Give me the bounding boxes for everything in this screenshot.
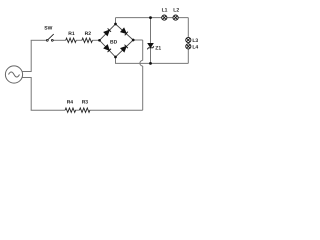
bridge BD edge wires bbox=[100, 24, 134, 57]
lamp L3 bbox=[186, 37, 191, 42]
wire: top branch from corner to switch bbox=[31, 39, 47, 41]
lamp L4 bbox=[186, 44, 191, 49]
wire: R1 to R2 bbox=[76, 39, 82, 41]
wire: right vertical rail with lamps bbox=[187, 18, 189, 64]
junction node: bridge bottom vertex bbox=[114, 56, 117, 59]
diode D2 upper-right (top vertex to right vertex) bbox=[121, 28, 128, 35]
wire: R4 to left corner bbox=[31, 109, 65, 111]
svg-text:R4: R4 bbox=[67, 100, 74, 106]
switch SW bbox=[46, 34, 53, 41]
svg-text:SW: SW bbox=[44, 25, 52, 31]
svg-text:R3: R3 bbox=[82, 100, 89, 106]
wire: R3 to R4 bbox=[75, 109, 79, 111]
diode D3 lower-left (left vertex to bottom vertex) bbox=[104, 45, 111, 52]
junction node: bridge left vertex bbox=[98, 39, 101, 42]
wire: drop vertical lower part bbox=[142, 66, 144, 110]
resistor R2 bbox=[82, 38, 93, 42]
junction node: bridge right vertex bbox=[132, 39, 135, 42]
wire: lower dc rail y62.5 from right corner to bridge bottom stub bbox=[116, 57, 189, 63]
wire: bridge top vertex stub to top rail bbox=[115, 18, 117, 24]
svg-text:Z1: Z1 bbox=[155, 46, 161, 52]
wire: zener branch vertical bbox=[150, 18, 152, 64]
wire: right vertex to drop wire bbox=[133, 39, 143, 41]
diode D1 upper-left (left vertex to top vertex) bbox=[104, 28, 111, 35]
diode D4 lower-right (bottom vertex to right vertex) bbox=[121, 45, 128, 52]
wire: top rail to top-right corner bbox=[116, 17, 189, 19]
resistor R3 bbox=[79, 108, 90, 112]
wire: drop vertical upper part bbox=[142, 40, 144, 60]
zener diode Z1 bbox=[147, 44, 154, 50]
AC source G1 bbox=[5, 66, 22, 83]
wire: bottom branch right segment bbox=[89, 109, 142, 111]
junction node: bridge top vertex bbox=[114, 23, 117, 26]
svg-text:R1: R1 bbox=[68, 31, 75, 37]
wire hop over dc rail bbox=[140, 60, 143, 66]
svg-text:L2: L2 bbox=[173, 7, 179, 13]
lamp L2 bbox=[173, 15, 178, 20]
svg-text:L3: L3 bbox=[192, 38, 198, 44]
wire: source bottom stub to left vertical down to bottom branch bbox=[23, 78, 32, 111]
svg-text:L4: L4 bbox=[192, 45, 198, 51]
junction node: zener tap on top rail bbox=[149, 16, 152, 19]
junction node: zener tap on lower dc rail bbox=[149, 62, 152, 65]
svg-text:R2: R2 bbox=[85, 31, 92, 37]
resistor R4 bbox=[65, 108, 76, 112]
wire: switch to R1 bbox=[53, 39, 65, 41]
svg-text:BD: BD bbox=[110, 39, 118, 45]
wire: R2 to bridge left vertex bbox=[92, 39, 99, 41]
lamp L1 bbox=[162, 15, 167, 20]
svg-text:L1: L1 bbox=[162, 7, 168, 13]
wire: source top stub to left vertical up to top branch bbox=[23, 40, 32, 71]
resistor R1 bbox=[66, 38, 77, 42]
